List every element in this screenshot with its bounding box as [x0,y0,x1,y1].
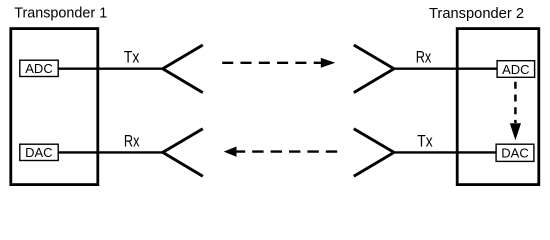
DAC block transponder 2 [496,144,534,161]
antenna bottom left [163,129,203,177]
wire antenna to ADC2 [394,67,497,69]
svg-text:Tx: Tx [417,133,432,151]
antenna bottom right [354,129,394,177]
svg-text:DAC: DAC [25,145,52,160]
wire ADC1 to antenna [58,67,163,69]
svg-text:Transponder 1: Transponder 1 [14,5,107,22]
antenna top right [354,45,394,93]
wire DAC1 to antenna [58,151,163,153]
ADC block transponder 1 [20,60,58,76]
DAC block transponder 1 [20,144,58,160]
dashed arrow top (Tx to Rx, pointing right) [222,58,335,68]
transponder 1 box [11,29,98,185]
dashed arrow ADC2 to DAC2 (pointing down) [510,82,521,140]
dashed arrow bottom (Tx to Rx, pointing left) [224,147,338,157]
svg-text:ADC: ADC [502,62,529,77]
ADC block transponder 2 [497,61,534,78]
svg-text:DAC: DAC [501,146,528,161]
svg-text:Rx: Rx [124,133,140,151]
antenna top left [163,45,203,93]
svg-text:Tx: Tx [124,48,139,66]
svg-text:ADC: ADC [25,61,52,76]
svg-text:Transponder 2: Transponder 2 [429,5,524,22]
transponder 2 box [457,29,539,185]
svg-text:Rx: Rx [416,48,432,66]
wire antenna to DAC2 [394,151,496,153]
